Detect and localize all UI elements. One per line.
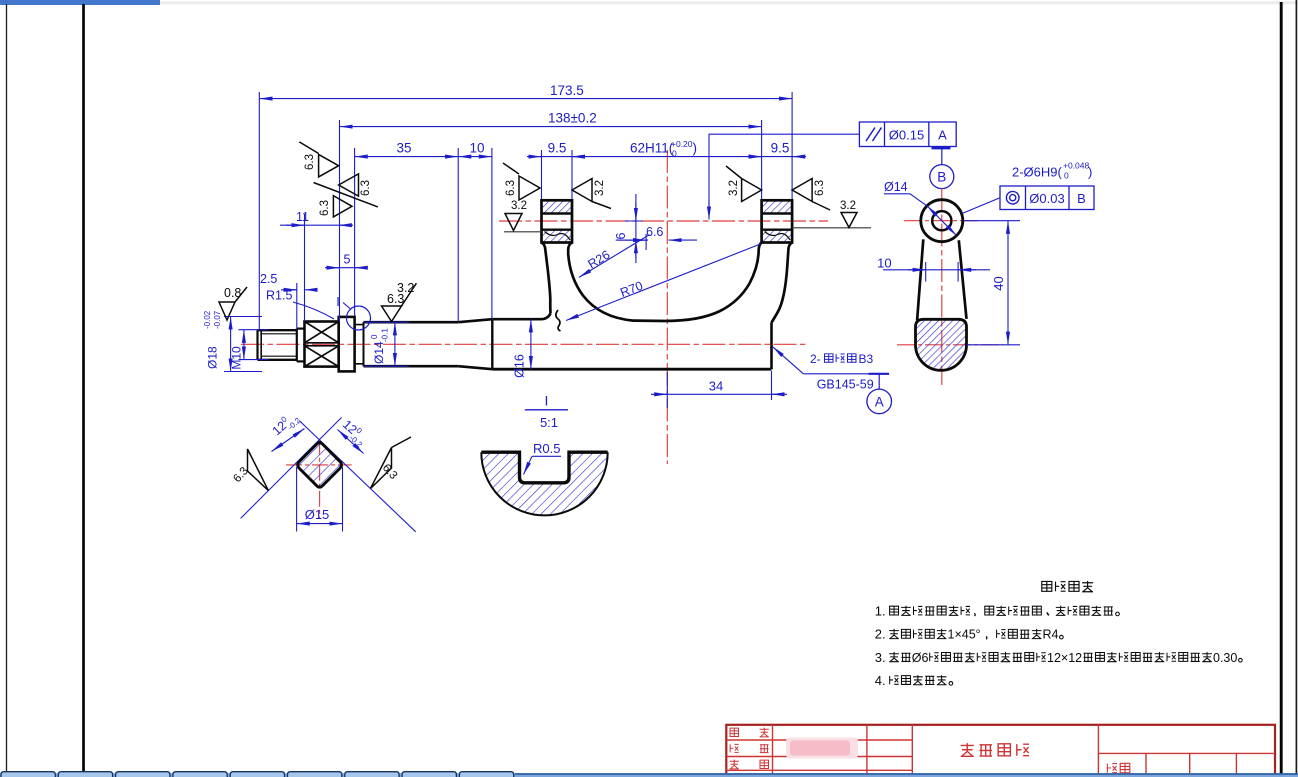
left fork ear break squiggle [545, 232, 571, 241]
surface line right of ear [792, 227, 871, 229]
dim phi16 [530, 319, 532, 369]
svg-text:6.3: 6.3 [304, 154, 316, 170]
svg-text:3.2: 3.2 [594, 180, 606, 196]
square section box [305, 322, 339, 367]
svg-text:+0.20: +0.20 [671, 139, 693, 149]
svg-text:1×45°: 1×45° [948, 628, 981, 642]
svg-text:Ø15: Ø15 [305, 507, 330, 522]
svg-text:0: 0 [672, 149, 677, 159]
left frame line thick [82, 4, 85, 774]
neck top [297, 328, 305, 330]
svg-text:5:1: 5:1 [540, 415, 558, 430]
title block rows left [726, 739, 912, 741]
dim phi15 [296, 467, 298, 532]
left fork ear outline [542, 200, 573, 242]
roughness 3.2 right of left ear [572, 179, 592, 202]
taper end edge [491, 319, 493, 369]
dim M10 [243, 330, 245, 360]
svg-text:0: 0 [1064, 171, 1069, 181]
fork inner U curve [568, 243, 761, 322]
shaft phi16 bottom [492, 368, 771, 371]
dim 9.5 right [747, 156, 806, 158]
side view arm right edge [959, 240, 967, 319]
svg-text:Ø6: Ø6 [912, 651, 929, 665]
roughness 6.3 square right [370, 448, 391, 489]
dim 6 [635, 194, 637, 263]
svg-text:-0.1: -0.1 [381, 328, 390, 342]
svg-text:A: A [938, 128, 947, 143]
ext lines 34 [666, 372, 668, 408]
right page line thin [1295, 0, 1297, 777]
dim phi18 [230, 317, 232, 372]
title text steering fork [961, 743, 974, 756]
title block outer frame [726, 725, 1275, 777]
svg-text:6: 6 [614, 232, 628, 239]
parallelism leader arrow [709, 134, 859, 208]
svg-text:GB145-59: GB145-59 [817, 378, 874, 392]
svg-text:R0.5: R0.5 [533, 441, 560, 456]
right fork ear hole lines [762, 212, 793, 214]
surface line left of ear [504, 231, 542, 233]
svg-text:R4: R4 [1043, 628, 1059, 642]
label design row [730, 728, 739, 736]
right fork ear break squiggle [765, 232, 791, 241]
right frame line thick [1280, 2, 1283, 777]
ext lines 40 [963, 220, 1020, 222]
concentricity leader [962, 198, 1000, 214]
square section cross bottom [305, 346, 339, 367]
roughness 6.3 T2 [339, 174, 359, 196]
fork ears centerline [499, 220, 828, 222]
svg-text:B3: B3 [859, 352, 874, 366]
flange [339, 317, 355, 372]
taper bottom [458, 366, 492, 369]
svg-text:3.: 3. [875, 650, 886, 665]
svg-text:-0.07: -0.07 [213, 310, 222, 329]
svg-text:10: 10 [877, 256, 891, 271]
svg-text:4.: 4. [875, 673, 886, 688]
datum B balloon [930, 165, 954, 189]
ext line 138 right / ear inner [761, 120, 763, 199]
side view arm left edge [917, 239, 923, 320]
dim 12-0.2 right [338, 430, 364, 454]
svg-text:3.2: 3.2 [511, 200, 527, 212]
datum B bar under frame [932, 147, 951, 149]
label check row [730, 760, 739, 769]
svg-text:R1.5: R1.5 [266, 289, 292, 303]
svg-text:): ) [693, 141, 698, 156]
svg-text:I: I [336, 294, 340, 309]
ext lines left ear [541, 150, 543, 199]
svg-text:Ø14: Ø14 [372, 341, 386, 364]
ext line flange face [354, 148, 356, 316]
svg-text:2.5: 2.5 [260, 272, 277, 286]
svg-text:40: 40 [991, 276, 1006, 290]
square detail extension line SE [299, 421, 415, 532]
svg-text:6.3: 6.3 [505, 180, 517, 196]
left fork ear hole lines [542, 212, 573, 214]
svg-text:6.3: 6.3 [360, 180, 372, 196]
detail I moon shape [481, 452, 607, 515]
thread minor line top [261, 333, 297, 335]
relief groove top [355, 322, 364, 324]
svg-text:6.6: 6.6 [646, 225, 663, 239]
shaft phi14 top [364, 321, 459, 324]
square section mid lines [305, 342, 339, 344]
roughness 6.3 T3 [333, 196, 352, 217]
svg-text:6.3: 6.3 [814, 180, 826, 196]
dim 12-0.2 left [272, 429, 305, 452]
thread chamfer line [260, 330, 262, 360]
datum A bar [868, 373, 889, 375]
ext line 173.5 right / ear outer [791, 92, 793, 199]
left page line thin [6, 4, 8, 774]
dim 5 [325, 267, 368, 269]
cast transition squiggle [556, 310, 561, 331]
svg-text:Ø0.15: Ø0.15 [889, 128, 924, 143]
right fork ear hatched top band [762, 200, 793, 213]
square detail red centerlines [286, 464, 352, 466]
serial number label [1107, 764, 1117, 773]
ext line taper start [457, 148, 459, 321]
concentricity frame [1000, 186, 1094, 210]
title block right cells [1145, 753, 1147, 777]
svg-text:0: 0 [370, 334, 379, 339]
svg-text:138±0.2: 138±0.2 [548, 111, 597, 126]
svg-text:Ø0.03: Ø0.03 [1029, 191, 1064, 206]
detail I circle [347, 306, 371, 330]
svg-text:173.5: 173.5 [550, 83, 584, 98]
side view boss outer circle [921, 200, 963, 242]
shaft phi16 top [492, 314, 550, 320]
left fork ear hatched top band [542, 200, 573, 213]
label draw row [730, 744, 739, 752]
tech requirements heading [1042, 581, 1052, 591]
square section cross top [305, 322, 339, 343]
side view pad horizontal centerline [897, 344, 1003, 346]
dim R26 [579, 235, 650, 278]
svg-text:): ) [1088, 165, 1092, 180]
shaft end face [770, 323, 773, 370]
dim 62H11 [572, 156, 762, 158]
svg-text:6.3: 6.3 [387, 292, 404, 306]
top toolbar blue strip [0, 0, 160, 5]
dim 10 [458, 156, 492, 158]
shaft phi14 bottom [364, 365, 459, 368]
svg-text:34: 34 [709, 379, 723, 394]
dim 9.5 left [527, 156, 586, 158]
side view red vertical centerline [941, 188, 943, 385]
dim 173.5 [259, 98, 792, 100]
svg-text:I: I [545, 393, 549, 409]
svg-text:2-Ø6H9(: 2-Ø6H9( [1012, 165, 1063, 180]
thread minor line bottom [261, 355, 297, 357]
svg-text:0.30: 0.30 [1213, 651, 1237, 665]
dim 138+-0.2 [340, 126, 762, 128]
roughness 6.3 left of left ear [519, 176, 540, 200]
neck bottom [297, 360, 305, 362]
svg-text:5: 5 [344, 253, 351, 267]
square detail diamond [298, 443, 342, 488]
roughness 3.2 left of right ear [742, 179, 762, 202]
dim R70 [566, 244, 761, 321]
right fork ear outline [762, 200, 793, 242]
title block right divider [1098, 752, 1275, 754]
svg-text:9.5: 9.5 [548, 141, 567, 156]
parallelism feature frame [859, 122, 956, 147]
dim phi14 shaft [394, 322, 396, 366]
side view boss horizontal centerline [904, 220, 979, 222]
shaft phi14 left edge [363, 322, 365, 366]
side view pad [916, 319, 967, 370]
ext line 173.5 left [258, 92, 260, 330]
svg-text:B: B [937, 170, 946, 185]
square detail extension line NE [241, 418, 342, 519]
svg-text:Ø16: Ø16 [513, 354, 527, 378]
svg-text:1.: 1. [875, 604, 886, 619]
left fork ear hatched bottom band [542, 230, 573, 243]
svg-text:10: 10 [469, 141, 484, 156]
svg-text:-0.02: -0.02 [203, 310, 212, 329]
top gray strip [160, 1, 1298, 4]
thread outer bottom [258, 359, 297, 361]
label 2-centre-hole B3 leader [803, 373, 868, 375]
dim 40 [1007, 221, 1009, 345]
thread end shoulder [296, 329, 298, 362]
right fork ear hatched bottom band [762, 230, 793, 243]
svg-text:9.5: 9.5 [771, 141, 790, 156]
svg-text:62H11(: 62H11( [630, 141, 674, 156]
svg-text:11: 11 [296, 210, 309, 224]
ext line 138 left [339, 120, 341, 322]
roughness 6.3 right of right ear [792, 179, 812, 202]
svg-text:2.: 2. [875, 627, 886, 642]
title block partial bottom row labels [730, 775, 739, 777]
svg-text:A: A [875, 395, 884, 410]
dim 34 [651, 393, 787, 395]
fork vertical centerline [666, 150, 668, 464]
dim 11 [280, 224, 353, 226]
relief groove bottom [355, 364, 364, 366]
svg-text:12×12: 12×12 [1047, 651, 1082, 665]
svg-text:B: B [1077, 191, 1086, 206]
dim 35 [355, 156, 459, 158]
right arm outer edge [772, 243, 793, 323]
thread outer top [258, 329, 297, 331]
taper top [458, 319, 492, 322]
ext line taper end [491, 148, 493, 319]
svg-text:2-: 2- [810, 352, 821, 366]
roughness 6.3 upper-left T1 [319, 154, 339, 177]
shaft centerline [241, 343, 806, 345]
taskbar buttons [1, 772, 55, 777]
redacted name blob [786, 738, 858, 759]
thread M10 end face [256, 330, 258, 360]
taskbar background [0, 773, 1298, 777]
roughness 6.3 square left [248, 449, 269, 491]
svg-text:Ø18: Ø18 [206, 346, 220, 369]
title block verticals [772, 725, 774, 777]
datum A balloon [867, 389, 892, 414]
left arm outer edge [542, 243, 551, 314]
svg-text:35: 35 [396, 141, 411, 156]
svg-text:6.3: 6.3 [319, 200, 331, 216]
svg-text:3.2: 3.2 [728, 180, 740, 196]
side view hole circle [932, 211, 951, 230]
svg-text:3.2: 3.2 [840, 200, 856, 212]
svg-text:M10: M10 [230, 346, 244, 370]
svg-text:Ø14: Ø14 [884, 180, 908, 194]
svg-text:+0.048: +0.048 [1063, 161, 1090, 171]
